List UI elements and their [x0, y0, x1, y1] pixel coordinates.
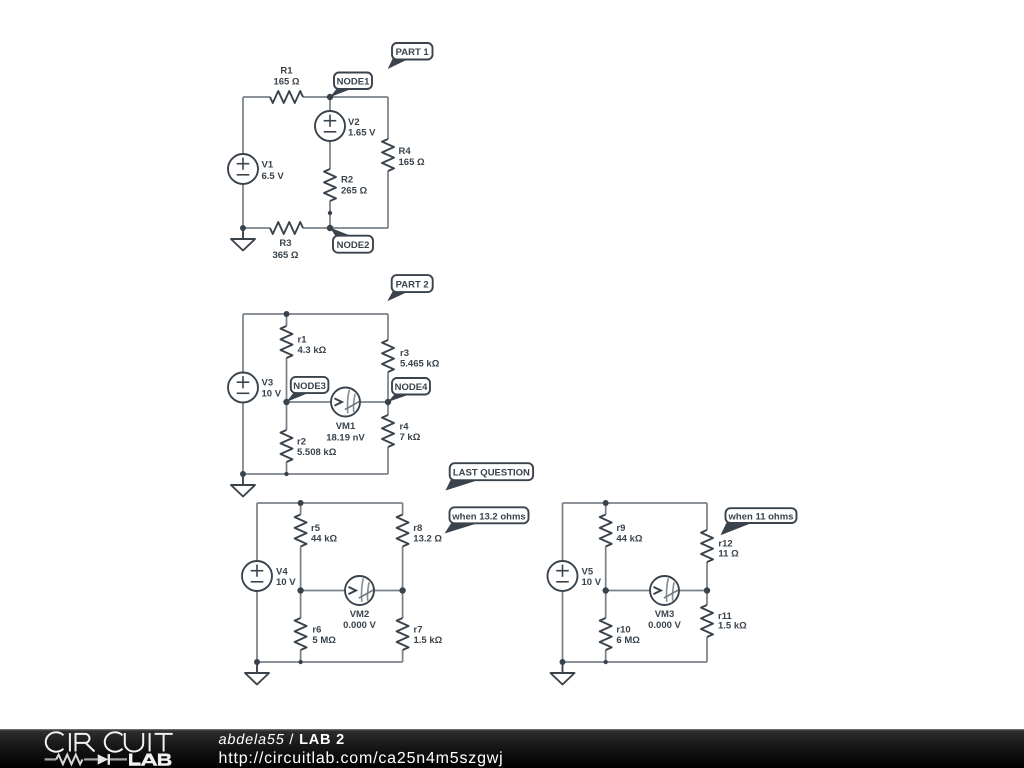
svg-text:NODE3: NODE3	[293, 381, 326, 392]
svg-text:when 13.2 ohms: when 13.2 ohms	[451, 511, 525, 522]
svg-text:R1: R1	[280, 65, 293, 76]
svg-text:when 11 ohms: when 11 ohms	[728, 512, 794, 523]
svg-text:365 Ω: 365 Ω	[272, 250, 298, 261]
svg-text:18.19 nV: 18.19 nV	[326, 433, 365, 444]
svg-text:1.65 V: 1.65 V	[348, 127, 376, 138]
svg-text:11 Ω: 11 Ω	[718, 548, 739, 559]
svg-text:PART 1: PART 1	[396, 47, 430, 58]
svg-text:PART 2: PART 2	[396, 280, 429, 291]
svg-text:4.3 kΩ: 4.3 kΩ	[298, 345, 327, 356]
svg-text:5.465 kΩ: 5.465 kΩ	[400, 359, 440, 370]
svg-text:R4: R4	[399, 146, 412, 157]
svg-text:1.5 kΩ: 1.5 kΩ	[718, 621, 747, 632]
svg-text:0.000 V: 0.000 V	[648, 620, 681, 631]
svg-text:r6: r6	[312, 625, 321, 636]
svg-text:10 V: 10 V	[276, 577, 296, 588]
svg-text:13.2 Ω: 13.2 Ω	[413, 534, 442, 545]
svg-text:265 Ω: 265 Ω	[341, 186, 367, 197]
svg-text:http://circuitlab.com/ca25n4m5: http://circuitlab.com/ca25n4m5szgwj	[219, 750, 504, 767]
svg-text:r8: r8	[413, 523, 422, 534]
svg-text:V1: V1	[262, 160, 274, 171]
svg-text:NODE4: NODE4	[395, 382, 428, 393]
svg-text:10 V: 10 V	[582, 577, 602, 588]
svg-text:10 V: 10 V	[262, 389, 282, 400]
svg-text:V3: V3	[262, 378, 274, 389]
svg-text:r9: r9	[616, 523, 625, 534]
svg-text:6 MΩ: 6 MΩ	[616, 635, 640, 646]
svg-text:1.5 kΩ: 1.5 kΩ	[414, 635, 443, 646]
svg-text:r10: r10	[616, 625, 630, 636]
svg-text:NODE2: NODE2	[337, 240, 370, 251]
svg-text:5 MΩ: 5 MΩ	[312, 635, 336, 646]
svg-text:r3: r3	[400, 348, 409, 359]
svg-text:r5: r5	[311, 523, 321, 534]
svg-text:r2: r2	[297, 437, 306, 448]
svg-text:0.000 V: 0.000 V	[343, 620, 376, 631]
svg-text:165 Ω: 165 Ω	[273, 76, 299, 87]
svg-text:VM2: VM2	[350, 609, 370, 620]
svg-text:r4: r4	[400, 422, 410, 433]
svg-text:5.508 kΩ: 5.508 kΩ	[297, 447, 337, 458]
svg-text:R3: R3	[279, 238, 291, 249]
svg-text:LAST QUESTION: LAST QUESTION	[453, 468, 530, 479]
svg-text:VM1: VM1	[336, 421, 356, 432]
svg-text:VM3: VM3	[655, 609, 675, 620]
svg-text:44 kΩ: 44 kΩ	[311, 534, 337, 545]
svg-text:7 kΩ: 7 kΩ	[400, 432, 421, 443]
svg-text:abdela55 / LAB 2: abdela55 / LAB 2	[219, 732, 345, 748]
svg-text:r7: r7	[414, 625, 423, 636]
svg-text:r1: r1	[298, 335, 308, 346]
svg-text:6.5 V: 6.5 V	[262, 171, 285, 182]
svg-text:NODE1: NODE1	[337, 77, 370, 88]
svg-text:44 kΩ: 44 kΩ	[616, 534, 642, 545]
svg-text:165 Ω: 165 Ω	[399, 157, 425, 168]
svg-text:R2: R2	[341, 175, 353, 186]
